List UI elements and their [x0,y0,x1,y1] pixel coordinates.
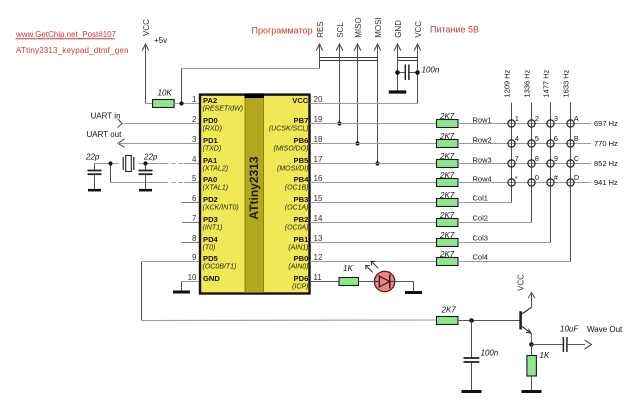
wire Row2 [458,143,591,145]
svg-text:2K7: 2K7 [439,191,455,200]
svg-text:Wave Out: Wave Out [587,325,623,334]
wire pin9 PD5 out [142,261,200,263]
wire keypad column 2 vertical [531,103,533,223]
svg-text:9: 9 [192,253,197,262]
svg-text:(MOSI/DI): (MOSI/DI) [277,165,309,172]
wire node to pin5 (with dashed break) [110,164,112,183]
wire 10K to pin1 [174,103,199,105]
keypad button 5 [528,140,535,147]
svg-text:2K7: 2K7 [439,112,455,121]
svg-text:(OC1A): (OC1A) [285,204,309,211]
svg-text:(AIN1): (AIN1) [288,244,308,251]
resistor 2K7 (row2) [437,140,459,148]
svg-text:2K7: 2K7 [439,171,455,180]
keypad button C [567,160,574,167]
svg-text:PB7: PB7 [294,116,309,125]
svg-text:UART in: UART in [91,112,121,121]
ground (22p left) [88,189,101,192]
IC U1 ATtiny2313 body [200,95,310,294]
svg-text:PB0: PB0 [294,254,309,263]
svg-text:www.GetChip.net_Post#107: www.GetChip.net_Post#107 [15,30,117,39]
wire pin17 to row resistor [310,163,437,165]
wire pin10 GND [182,281,200,283]
svg-text:13: 13 [314,234,323,243]
wire MOSI to pin17 [377,44,379,164]
svg-text:PD4: PD4 [203,235,219,244]
ground (22p right) [139,189,152,192]
wire MISO to pin18 [357,44,359,144]
svg-text:ATtiny2313_keypad_dtmf_gen: ATtiny2313_keypad_dtmf_gen [16,46,129,55]
svg-text:10uF: 10uF [560,324,579,333]
pin6 stub [182,202,199,204]
svg-text:17: 17 [314,155,323,164]
wire emitter to node [530,333,532,345]
wire 1K to LED [359,281,376,283]
svg-text:2K7: 2K7 [439,132,455,141]
svg-text:VCC: VCC [292,96,309,105]
keypad button B [567,140,574,147]
svg-text:1K: 1K [343,264,353,273]
ground (programmer) [389,90,407,93]
svg-text:8: 8 [535,154,539,163]
svg-text:(MISO/DO): (MISO/DO) [274,145,309,152]
ground (pin10) [173,291,190,294]
svg-text:RES: RES [316,21,325,37]
wire keypad column 3 vertical [550,103,552,243]
svg-text:0: 0 [535,173,539,182]
svg-text:4: 4 [192,155,197,164]
svg-text:#: # [554,173,558,182]
svg-text:1477 Hz: 1477 Hz [542,69,551,97]
svg-text:1K: 1K [540,351,550,360]
svg-text:PD6: PD6 [294,274,309,283]
svg-text:1: 1 [515,114,519,123]
keypad button * [508,179,515,186]
svg-text:Col1: Col1 [473,194,488,203]
keypad button 2 [528,120,535,127]
keypad button A [567,120,574,127]
svg-text:2K7: 2K7 [439,211,455,220]
keypad button D [567,179,574,186]
wire Col1 [458,202,512,204]
svg-text:Col2: Col2 [473,214,488,223]
resistor 2K7 (col3) [437,239,459,247]
transistor Q1 NPN [519,311,522,329]
wire Col3 [458,242,551,244]
keypad button 3 [547,120,554,127]
svg-text:PB3: PB3 [294,195,309,204]
keypad button # [547,179,554,186]
power arrow +5V [142,44,149,51]
svg-text:Row2: Row2 [473,135,492,144]
svg-text:MOSI: MOSI [374,17,383,37]
svg-text:20: 20 [314,95,323,104]
wire VCC down to 10K [145,44,147,104]
svg-text:770 Hz: 770 Hz [594,139,618,148]
node GND/100n [395,70,400,75]
node emitter [529,342,534,347]
svg-text:(OC0A): (OC0A) [285,224,309,231]
svg-text:3: 3 [554,114,558,123]
svg-text:(UCSK/SCL): (UCSK/SCL) [269,125,309,132]
svg-text:PD2: PD2 [203,195,218,204]
svg-text:D: D [574,173,579,182]
svg-text:12: 12 [314,253,323,262]
svg-text:A: A [574,114,579,123]
svg-text:PB1: PB1 [294,235,310,244]
svg-text:UART out: UART out [87,130,123,139]
wire pin16 to row resistor [310,182,437,184]
svg-text:941 Hz: 941 Hz [594,178,618,187]
wire LED to ground [395,281,414,283]
svg-text:100n: 100n [422,66,440,75]
svg-text:ATtiny2313: ATtiny2313 [247,156,261,219]
wire pin20 VCC [310,103,418,105]
wire pin18 to row resistor [310,143,437,145]
resistor 2K7 (col4) [437,258,459,266]
resistor 2K7 (row4) [437,179,459,187]
svg-text:2: 2 [192,115,197,124]
wire SCL to pin19 [339,44,341,124]
svg-text:6: 6 [554,134,558,143]
svg-text:9: 9 [554,154,558,163]
wire crystal net to pin4 (with dashed break) [95,163,119,165]
resistor 2K7 (row3) [437,160,459,168]
svg-text:VCC: VCC [517,274,526,291]
svg-text:2K7: 2K7 [439,250,455,259]
keypad button 9 [547,160,554,167]
keypad button 4 [508,140,515,147]
keypad button 0 [528,179,535,186]
svg-text:22p: 22p [85,153,100,162]
junction node pin1 [179,101,183,105]
transistor emitter arrow [526,329,531,333]
IC notch marker [245,93,265,98]
svg-text:3: 3 [192,135,197,144]
svg-text:2K7: 2K7 [441,306,457,315]
svg-text:PB5: PB5 [294,156,310,165]
svg-text:(OC1B): (OC1B) [285,184,309,191]
svg-text:(ICP): (ICP) [292,283,308,290]
svg-text:1: 1 [192,95,197,104]
wire pin13 to col resistor [310,242,437,244]
wire RES [319,44,321,69]
resistor 1K (LED) [339,278,359,286]
resistor 2K7 (amp input) [437,317,459,325]
wire Row4 [458,182,591,184]
svg-text:5: 5 [192,174,197,183]
ground (1K emitter) [522,390,542,393]
pin8 stub [182,242,199,244]
svg-text:Питание 5В: Питание 5В [430,24,479,34]
wire 2K7 to base node [458,320,520,322]
node crystal right [143,161,147,165]
svg-text:18: 18 [314,135,323,144]
wire Row1 [458,123,591,125]
svg-text:1633 Hz: 1633 Hz [562,69,571,97]
node crystal left [108,161,112,165]
svg-text:10K: 10K [158,89,173,98]
svg-text:PA0: PA0 [203,175,217,184]
svg-text:*: * [515,174,518,183]
svg-text:Row3: Row3 [473,155,492,164]
power arrow VCC (transistor) [531,293,533,308]
svg-text:PB4: PB4 [294,175,310,184]
wire GND down [397,44,399,91]
node base/100n [469,318,474,323]
svg-text:4: 4 [515,134,519,143]
wire pin12 to col resistor [310,261,437,263]
svg-text:15: 15 [314,194,323,203]
svg-text:1336 Hz: 1336 Hz [523,69,532,97]
keypad button 8 [528,160,535,167]
svg-text:16: 16 [314,174,323,183]
IC center band [245,96,264,292]
svg-text:7: 7 [515,154,519,163]
svg-text:(OC0B/T1): (OC0B/T1) [203,263,237,270]
pin7 stub [182,222,199,224]
svg-text:19: 19 [314,115,323,124]
wire pin14 to col resistor [310,222,437,224]
capacitor 100n (amp) [471,321,473,358]
keypad button 7 [508,160,515,167]
svg-text:PD0: PD0 [203,116,218,125]
svg-text:GND: GND [203,274,220,283]
wire Col4 [458,261,571,263]
node VCC/100n [415,70,420,75]
svg-text:100n: 100n [481,349,499,358]
svg-text:C: C [574,154,579,163]
wire VCC down to pin20 [417,44,419,104]
svg-text:PB6: PB6 [294,136,309,145]
LED light arrows [371,261,378,268]
svg-text:5: 5 [535,134,539,143]
svg-text:PA1: PA1 [203,156,218,165]
crystal Q1 [122,157,124,170]
svg-text:(RXD): (RXD) [203,125,222,132]
svg-text:(T0): (T0) [203,244,216,251]
wire pin15 to col resistor [310,202,437,204]
wire Col2 [458,222,532,224]
ground (LED) [405,291,422,294]
wire keypad column 1 vertical [511,103,513,203]
svg-text:852 Hz: 852 Hz [594,159,618,168]
svg-text:2K7: 2K7 [439,152,455,161]
resistor 2K7 (col1) [437,199,459,207]
svg-text:Программатор: Программатор [252,25,313,35]
svg-text:10: 10 [188,273,197,282]
capacitor 10uF [562,337,564,352]
svg-text:Col3: Col3 [473,234,488,243]
svg-text:PB2: PB2 [294,215,309,224]
svg-text:2: 2 [535,114,539,123]
wire riser pin1 to RES net [181,69,183,104]
wire keypad column 4 vertical [570,103,572,262]
svg-text:14: 14 [314,214,323,223]
LED D1 [374,271,394,291]
resistor 2K7 (row1) [437,120,459,128]
ground (100n amp) [462,390,482,393]
svg-text:(INT1): (INT1) [203,224,223,231]
svg-text:1209 Hz: 1209 Hz [503,69,512,97]
svg-text:(AIN0): (AIN0) [288,263,308,270]
UART in wire with arrow into pin2 [118,119,122,128]
svg-text:11: 11 [314,273,323,282]
capacitor 100n (programmer) [398,72,406,74]
connector bar lines ISP [320,57,378,59]
UART out wire with arrow from pin3 [118,139,125,148]
svg-text:697 Hz: 697 Hz [594,119,618,128]
svg-text:Row4: Row4 [473,174,492,183]
svg-text:PD5: PD5 [203,254,219,263]
svg-text:+5v: +5v [154,36,167,45]
wire 10uF to output arrow [567,344,585,346]
resistor 1K (emitter) [531,345,533,356]
svg-text:(XTAL1): (XTAL1) [203,184,229,191]
svg-text:VCC: VCC [414,21,423,38]
keypad button 6 [547,140,554,147]
svg-text:6: 6 [192,194,197,203]
wire Row3 [458,163,591,165]
resistor 2K7 (col2) [437,219,459,227]
svg-text:2K7: 2K7 [439,231,455,240]
svg-text:(XTAL2): (XTAL2) [203,165,229,172]
wire pin11 to 1K [310,281,339,283]
svg-text:VCC: VCC [142,19,151,36]
svg-text:7: 7 [192,214,197,223]
svg-text:22p: 22p [143,153,158,162]
svg-text:(XCK/INT0): (XCK/INT0) [203,204,239,211]
svg-text:GND: GND [394,20,403,38]
wire node to 10uF [532,344,564,346]
svg-text:8: 8 [192,234,197,243]
svg-text:(TXD): (TXD) [203,145,222,152]
svg-text:PD3: PD3 [203,215,218,224]
svg-text:Row1: Row1 [473,115,492,124]
svg-text:SCL: SCL [336,22,345,38]
keypad button 1 [508,120,515,127]
svg-text:PD1: PD1 [203,136,219,145]
svg-text:(RESET/dW): (RESET/dW) [203,105,243,112]
wire pin19 to row resistor [310,123,437,125]
svg-text:PA2: PA2 [203,96,217,105]
svg-text:MISO: MISO [354,17,363,37]
resistor 10K [153,100,175,108]
svg-text:Col4: Col4 [473,253,488,262]
svg-text:B: B [574,134,579,143]
